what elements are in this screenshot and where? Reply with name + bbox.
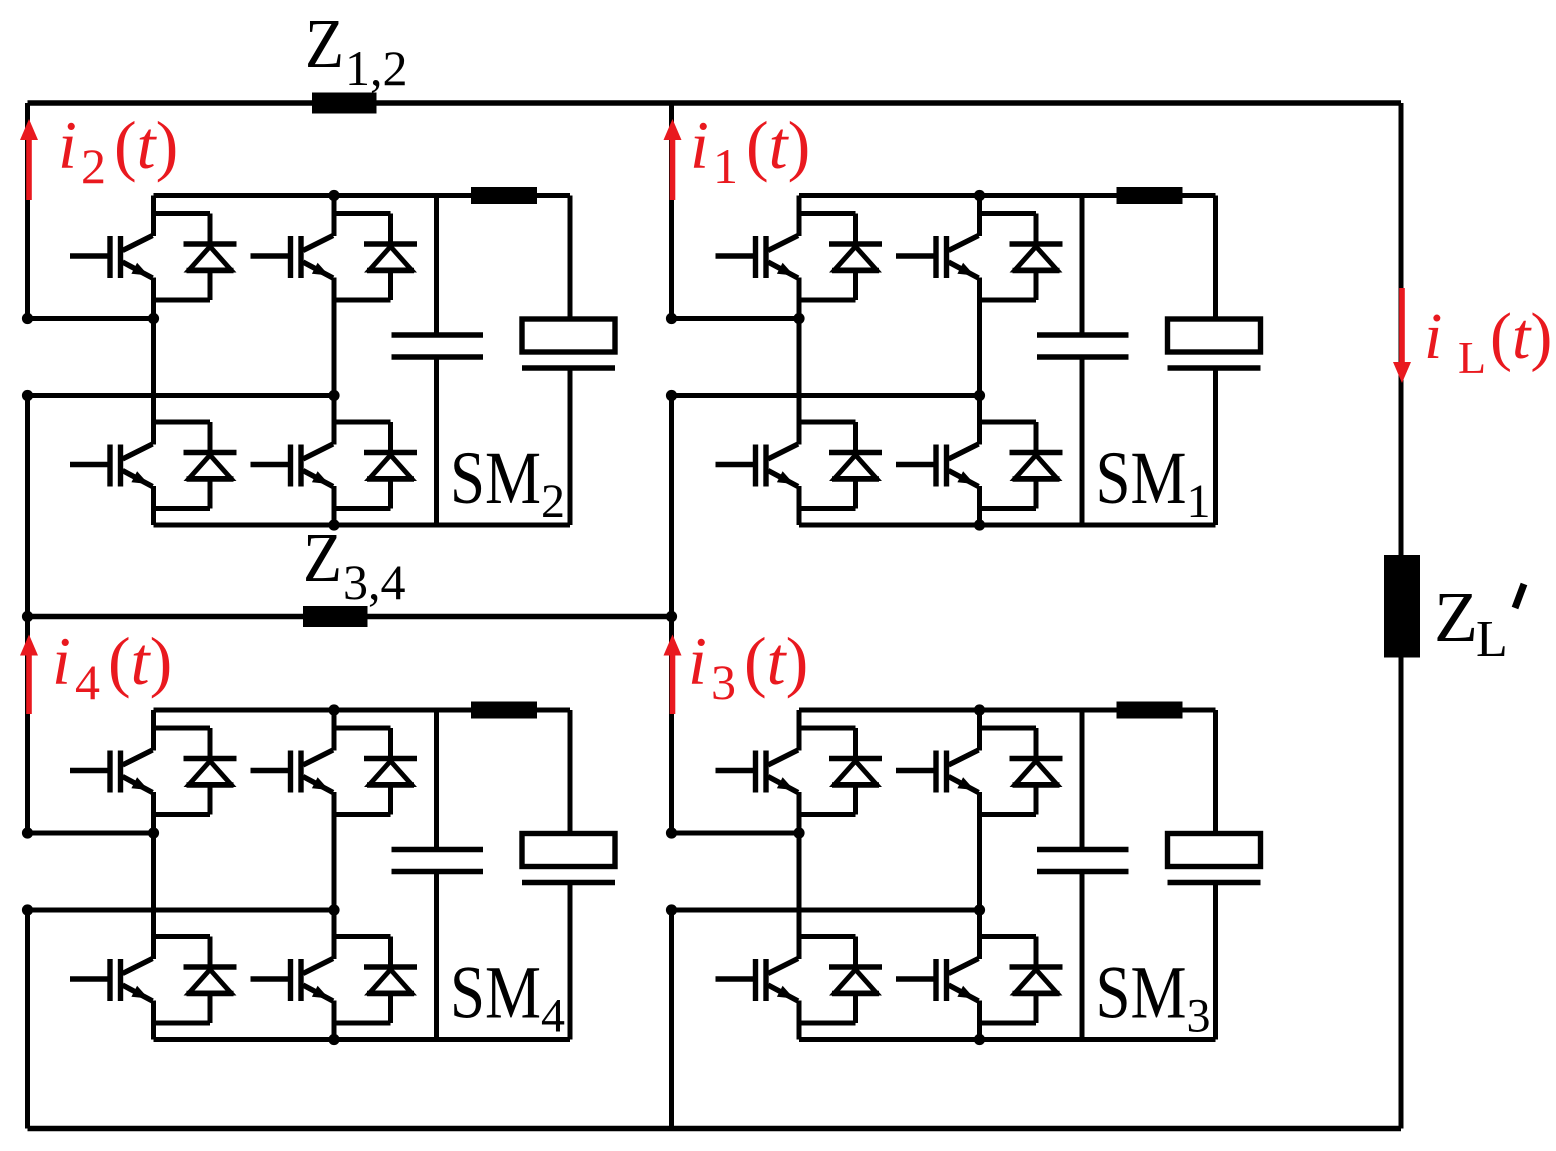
junction middle bus left end: [22, 611, 33, 622]
capacitor of SM2: [392, 335, 484, 357]
svg-text:i: i: [58, 107, 77, 183]
junction node at right leg (node2 SM1): [974, 390, 985, 401]
antiparallel diode of SM2 lower-right: [364, 422, 417, 509]
svg-text:i: i: [52, 623, 71, 699]
antiparallel diode of SM3 upper-right: [1010, 728, 1063, 815]
wire SM2 bridge bottom rail: [154, 523, 571, 528]
wire SM2 left-leg output node: [28, 316, 154, 321]
wire diode loop of SM2 upper-right: [334, 214, 391, 301]
wire SM4 capacitor bottom lead: [434, 872, 439, 1040]
junction node at left leg (node1 SM1): [793, 313, 804, 324]
wire SM1 right-leg output node: [672, 393, 980, 398]
wire SM4 right-leg output node: [28, 908, 335, 913]
junction node at column rail (node2 SM1): [666, 390, 677, 401]
wire diode loop of SM1 upper-right: [980, 214, 1037, 301]
wire diode loop of SM4 upper-left: [154, 728, 211, 815]
svg-text:Z: Z: [1434, 577, 1478, 657]
current arrow iL(t): [1393, 288, 1411, 383]
battery cell of SM2: [522, 319, 615, 368]
current arrow i1(t): [664, 119, 682, 200]
wire SM1 capacitor top lead: [1080, 196, 1085, 336]
junction node at column rail (node1 SM3): [666, 827, 677, 838]
wire SM2 cell bottom lead: [568, 368, 573, 525]
junction SM3 top rail / right leg: [974, 704, 985, 715]
wire SM4 cell bottom lead: [568, 883, 573, 1040]
wire right rail (load branch): [1399, 103, 1404, 1129]
svg-text:SM: SM: [450, 437, 541, 520]
label i2(t): [58, 107, 178, 194]
junction SM4 bottom rail / right leg: [328, 1034, 339, 1045]
svg-text:(t): (t): [746, 107, 810, 183]
wire SM4 lower-right emitter: [332, 1001, 337, 1040]
wire SM3 bridge top rail: [799, 708, 1216, 713]
wire left rail lower segment (branch 4 return): [25, 910, 30, 1129]
svg-text:i: i: [1424, 300, 1442, 373]
wire diode loop of SM4 upper-right: [334, 728, 391, 815]
wire SM2 upper-right collector: [332, 196, 337, 237]
wire middle rail lower segment (branch 3 return): [669, 910, 674, 1129]
wire SM4 lower-right collector: [332, 910, 337, 959]
junction node at column rail (node1 SM1): [666, 313, 677, 324]
IGBT transistor SM2 lower-right: [251, 444, 334, 487]
wire SM3 upper-right collector: [977, 710, 982, 751]
svg-text:1: 1: [1187, 475, 1211, 528]
IGBT transistor SM3 lower-left: [716, 959, 799, 1002]
wire diode loop of SM3 lower-right: [980, 937, 1037, 1024]
IGBT transistor SM3 lower-right: [896, 959, 979, 1002]
wire SM1 upper-left emitter to node: [797, 278, 802, 319]
label i3(t): [688, 623, 808, 710]
wire SM3 lower-left emitter: [797, 1001, 802, 1040]
junction node at left leg (node1 SM3): [793, 827, 804, 838]
capacitor of SM1: [1037, 335, 1129, 357]
wire middle bus (between SM2/SM4 and SM1/SM3): [28, 614, 672, 620]
wire SM3 left-leg output node: [672, 831, 800, 836]
junction node at column rail (node1 SM4): [22, 827, 33, 838]
wire SM1 upper-right emitter to node: [977, 278, 982, 396]
svg-text:Z: Z: [305, 6, 344, 83]
wire SM2 bridge top rail: [154, 193, 571, 198]
svg-text:(t): (t): [108, 623, 172, 699]
impedance (black box) in SM3 cell branch: [1117, 702, 1183, 719]
svg-text:3,4: 3,4: [343, 554, 406, 610]
wire SM4 bridge top rail: [154, 708, 571, 713]
IGBT transistor SM2 lower-left: [70, 444, 153, 487]
label iL(t): [1424, 300, 1552, 383]
svg-text:(t): (t): [114, 107, 178, 183]
wire SM2 lower-left collector: [151, 319, 156, 445]
wire SM4 cell top lead: [568, 710, 573, 834]
wire SM1 left-leg output node: [672, 316, 800, 321]
wire diode loop of SM3 lower-left: [799, 937, 856, 1024]
svg-text:i: i: [688, 623, 707, 699]
junction SM2 bottom rail / right leg: [328, 519, 339, 530]
antiparallel diode of SM2 lower-left: [184, 422, 237, 509]
svg-text:(t): (t): [744, 623, 808, 699]
IGBT transistor SM1 upper-right: [896, 236, 979, 279]
antiparallel diode of SM2 upper-left: [184, 214, 237, 301]
wire middle rail upper segment (branch 1): [669, 103, 674, 319]
antiparallel diode of SM3 lower-left: [829, 937, 882, 1024]
svg-text:3: 3: [711, 654, 736, 710]
wire SM2 lower-left emitter: [151, 486, 156, 525]
wire SM1 lower-right collector: [977, 396, 982, 445]
wire SM2 capacitor top lead: [434, 196, 439, 336]
battery cell of SM1: [1168, 319, 1261, 368]
wire SM1 lower-right emitter: [977, 486, 982, 525]
battery cell of SM3: [1168, 834, 1261, 883]
junction node at column rail (node1 SM2): [22, 313, 33, 324]
wire SM4 upper-right collector: [332, 710, 337, 751]
svg-text:SM: SM: [1096, 952, 1187, 1035]
svg-text:(t): (t): [1490, 300, 1552, 373]
svg-text:SM: SM: [450, 952, 541, 1035]
svg-text:L: L: [1476, 611, 1508, 668]
wire SM3 capacitor top lead: [1080, 710, 1085, 850]
impedance Z3,4: [303, 606, 368, 627]
junction SM1 bottom rail / right leg: [974, 519, 985, 530]
junction node at right leg (node2 SM4): [328, 904, 339, 915]
wire SM3 right-leg output node: [672, 908, 980, 913]
junction SM3 bottom rail / right leg: [974, 1034, 985, 1045]
wire diode loop of SM2 lower-left: [154, 422, 211, 509]
IGBT transistor SM3 upper-right: [896, 750, 979, 793]
current arrow i4(t): [20, 635, 38, 715]
wire diode loop of SM3 upper-left: [799, 728, 856, 815]
wire SM4 lower-left emitter: [151, 1001, 156, 1040]
wire SM3 upper-left emitter to node: [797, 792, 802, 833]
antiparallel diode of SM4 lower-right: [364, 937, 417, 1024]
wire SM3 lower-right emitter: [977, 1001, 982, 1040]
wire SM4 left-leg output node: [28, 831, 154, 836]
junction SM1 top rail / right leg: [974, 190, 985, 201]
wire diode loop of SM1 upper-left: [799, 214, 856, 301]
antiparallel diode of SM4 upper-left: [184, 728, 237, 815]
svg-text:L: L: [1458, 332, 1486, 383]
wire SM1 bridge top rail: [799, 193, 1216, 198]
svg-text:4: 4: [75, 654, 100, 710]
junction SM2 top rail / right leg: [328, 190, 339, 201]
impedance (black box) in SM1 cell branch: [1117, 187, 1183, 204]
battery cell of SM4: [522, 834, 615, 883]
IGBT transistor SM4 upper-right: [251, 750, 334, 793]
junction node at left leg (node1 SM2): [148, 313, 159, 324]
wire SM1 bridge bottom rail: [799, 523, 1216, 528]
svg-text:4: 4: [541, 990, 565, 1043]
IGBT transistor SM1 lower-left: [716, 444, 799, 487]
wire SM1 cell top lead: [1213, 196, 1218, 320]
IGBT transistor SM1 upper-left: [716, 236, 799, 279]
wire SM3 cell bottom lead: [1213, 883, 1218, 1040]
wire middle rail middle segment (branch 1/3): [669, 396, 674, 834]
wire SM1 upper-right collector: [977, 196, 982, 237]
antiparallel diode of SM4 upper-right: [364, 728, 417, 815]
svg-text:i: i: [690, 107, 709, 183]
wire SM4 capacitor top lead: [434, 710, 439, 850]
impedance (black box) in SM2 cell branch: [471, 187, 537, 204]
wire diode loop of SM2 upper-left: [154, 214, 211, 301]
wire left rail middle segment (branch 2/4 return): [25, 396, 30, 834]
current arrow i3(t): [664, 635, 682, 715]
junction node at right leg (node2 SM3): [974, 904, 985, 915]
current arrow i2(t): [20, 119, 38, 200]
impedance ZL' (load): [1384, 555, 1420, 658]
wire SM3 bridge bottom rail: [799, 1037, 1216, 1042]
svg-text:Z: Z: [303, 520, 342, 597]
wire diode loop of SM1 lower-right: [980, 422, 1037, 509]
junction node at left leg (node1 SM4): [148, 827, 159, 838]
wire SM1 capacitor bottom lead: [1080, 357, 1085, 525]
wire SM3 upper-right emitter to node: [977, 792, 982, 910]
wire SM3 cell top lead: [1213, 710, 1218, 834]
junction node at column rail (node2 SM4): [22, 904, 33, 915]
wire SM2 lower-right collector: [332, 396, 337, 445]
junction middle bus right end: [666, 611, 677, 622]
wire SM1 lower-left emitter: [797, 486, 802, 525]
antiparallel diode of SM1 lower-right: [1010, 422, 1063, 509]
wire SM2 upper-left emitter to node: [151, 278, 156, 319]
IGBT transistor SM4 lower-left: [70, 959, 153, 1002]
capacitor of SM3: [1037, 850, 1129, 872]
antiparallel diode of SM1 lower-left: [829, 422, 882, 509]
svg-text:1,2: 1,2: [345, 40, 408, 96]
wire SM4 upper-left emitter to node: [151, 792, 156, 833]
junction node at column rail (node2 SM3): [666, 904, 677, 915]
wire left rail upper segment (branch 2): [25, 103, 30, 319]
wire SM2 upper-right emitter to node: [332, 278, 337, 396]
antiparallel diode of SM1 upper-right: [1010, 214, 1063, 301]
wire SM4 upper-left collector: [151, 710, 156, 751]
wire SM2 cell top lead: [568, 196, 573, 320]
junction SM4 top rail / right leg: [328, 704, 339, 715]
wire SM3 lower-right collector: [977, 910, 982, 959]
label i4(t): [52, 623, 172, 710]
wire SM3 capacitor bottom lead: [1080, 872, 1085, 1040]
IGBT transistor SM3 upper-left: [716, 750, 799, 793]
label i1(t): [690, 107, 810, 194]
wire top bus: [28, 100, 1402, 106]
antiparallel diode of SM3 upper-left: [829, 728, 882, 815]
IGBT transistor SM2 upper-right: [251, 236, 334, 279]
wire SM4 upper-right emitter to node: [332, 792, 337, 910]
svg-text:2: 2: [541, 475, 565, 528]
impedance Z1,2: [312, 93, 377, 114]
wire SM1 lower-left collector: [797, 319, 802, 445]
wire SM1 upper-left collector: [797, 196, 802, 237]
wire bottom bus: [28, 1126, 1402, 1132]
wire SM4 bridge bottom rail: [154, 1037, 571, 1042]
IGBT transistor SM4 lower-right: [251, 959, 334, 1002]
wire SM2 right-leg output node: [28, 393, 335, 398]
antiparallel diode of SM2 upper-right: [364, 214, 417, 301]
wire diode loop of SM4 lower-right: [334, 937, 391, 1024]
svg-text:1: 1: [713, 138, 738, 194]
wire SM1 cell bottom lead: [1213, 368, 1218, 525]
IGBT transistor SM2 upper-left: [70, 236, 153, 279]
svg-text:SM: SM: [1096, 437, 1187, 520]
svg-text:3: 3: [1187, 990, 1211, 1043]
wire SM2 capacitor bottom lead: [434, 357, 439, 525]
wire SM2 upper-left collector: [151, 196, 156, 237]
wire diode loop of SM2 lower-right: [334, 422, 391, 509]
capacitor of SM4: [392, 850, 484, 872]
wire SM2 lower-right emitter: [332, 486, 337, 525]
wire diode loop of SM3 upper-right: [980, 728, 1037, 815]
IGBT transistor SM4 upper-left: [70, 750, 153, 793]
IGBT transistor SM1 lower-right: [896, 444, 979, 487]
impedance (black box) in SM4 cell branch: [471, 702, 537, 719]
svg-text:2: 2: [81, 138, 106, 194]
wire diode loop of SM1 lower-left: [799, 422, 856, 509]
wire diode loop of SM4 lower-left: [154, 937, 211, 1024]
wire SM3 upper-left collector: [797, 710, 802, 751]
antiparallel diode of SM1 upper-left: [829, 214, 882, 301]
wire SM3 lower-left collector: [797, 833, 802, 959]
wire SM4 lower-left collector: [151, 833, 156, 959]
antiparallel diode of SM4 lower-left: [184, 937, 237, 1024]
junction node at column rail (node2 SM2): [22, 390, 33, 401]
junction node at right leg (node2 SM2): [328, 390, 339, 401]
antiparallel diode of SM3 lower-right: [1010, 937, 1063, 1024]
